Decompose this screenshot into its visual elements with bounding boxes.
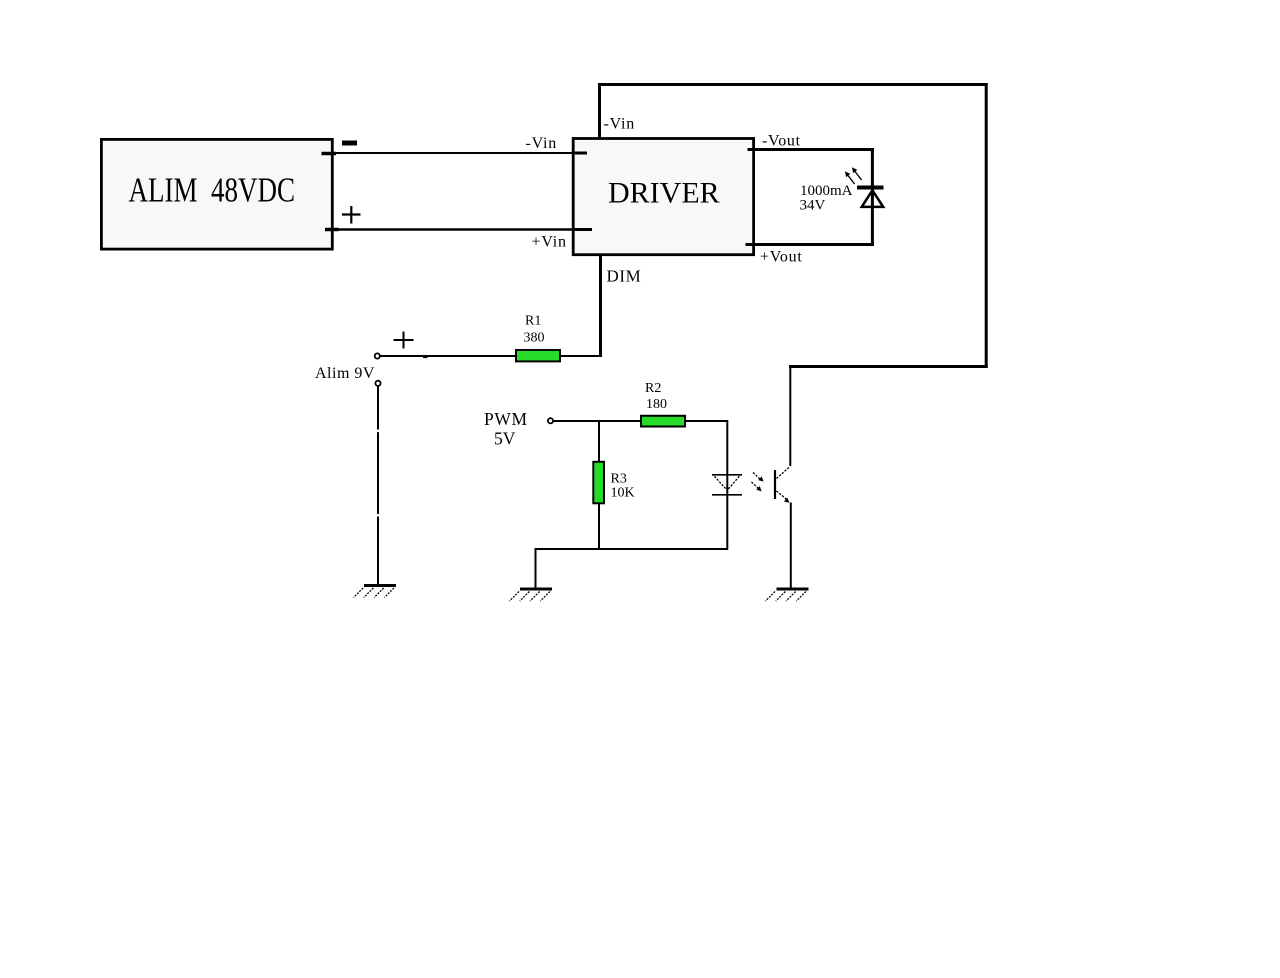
svg-text:ALIM 48VDC: ALIM 48VDC <box>129 170 296 209</box>
svg-text:R1: R1 <box>525 314 541 329</box>
svg-text:10K: 10K <box>611 486 635 501</box>
svg-text:-Vout: -Vout <box>762 133 801 150</box>
svg-text:PWM: PWM <box>484 409 528 429</box>
svg-text:-Vin: -Vin <box>604 116 636 133</box>
svg-text:R3: R3 <box>611 472 627 487</box>
svg-text:DRIVER: DRIVER <box>608 176 720 209</box>
svg-text:+Vin: +Vin <box>532 233 567 250</box>
svg-text:Alim 9V: Alim 9V <box>315 365 375 382</box>
svg-text:+Vout: +Vout <box>760 249 802 266</box>
svg-text:R2: R2 <box>645 381 661 396</box>
svg-text:180: 180 <box>646 397 667 412</box>
svg-text:1000mA: 1000mA <box>800 183 853 199</box>
svg-text:-Vin: -Vin <box>526 135 558 152</box>
svg-text:34V: 34V <box>800 198 826 214</box>
svg-text:DIM: DIM <box>607 266 642 285</box>
svg-text:5V: 5V <box>494 428 516 448</box>
svg-text:380: 380 <box>524 330 545 345</box>
